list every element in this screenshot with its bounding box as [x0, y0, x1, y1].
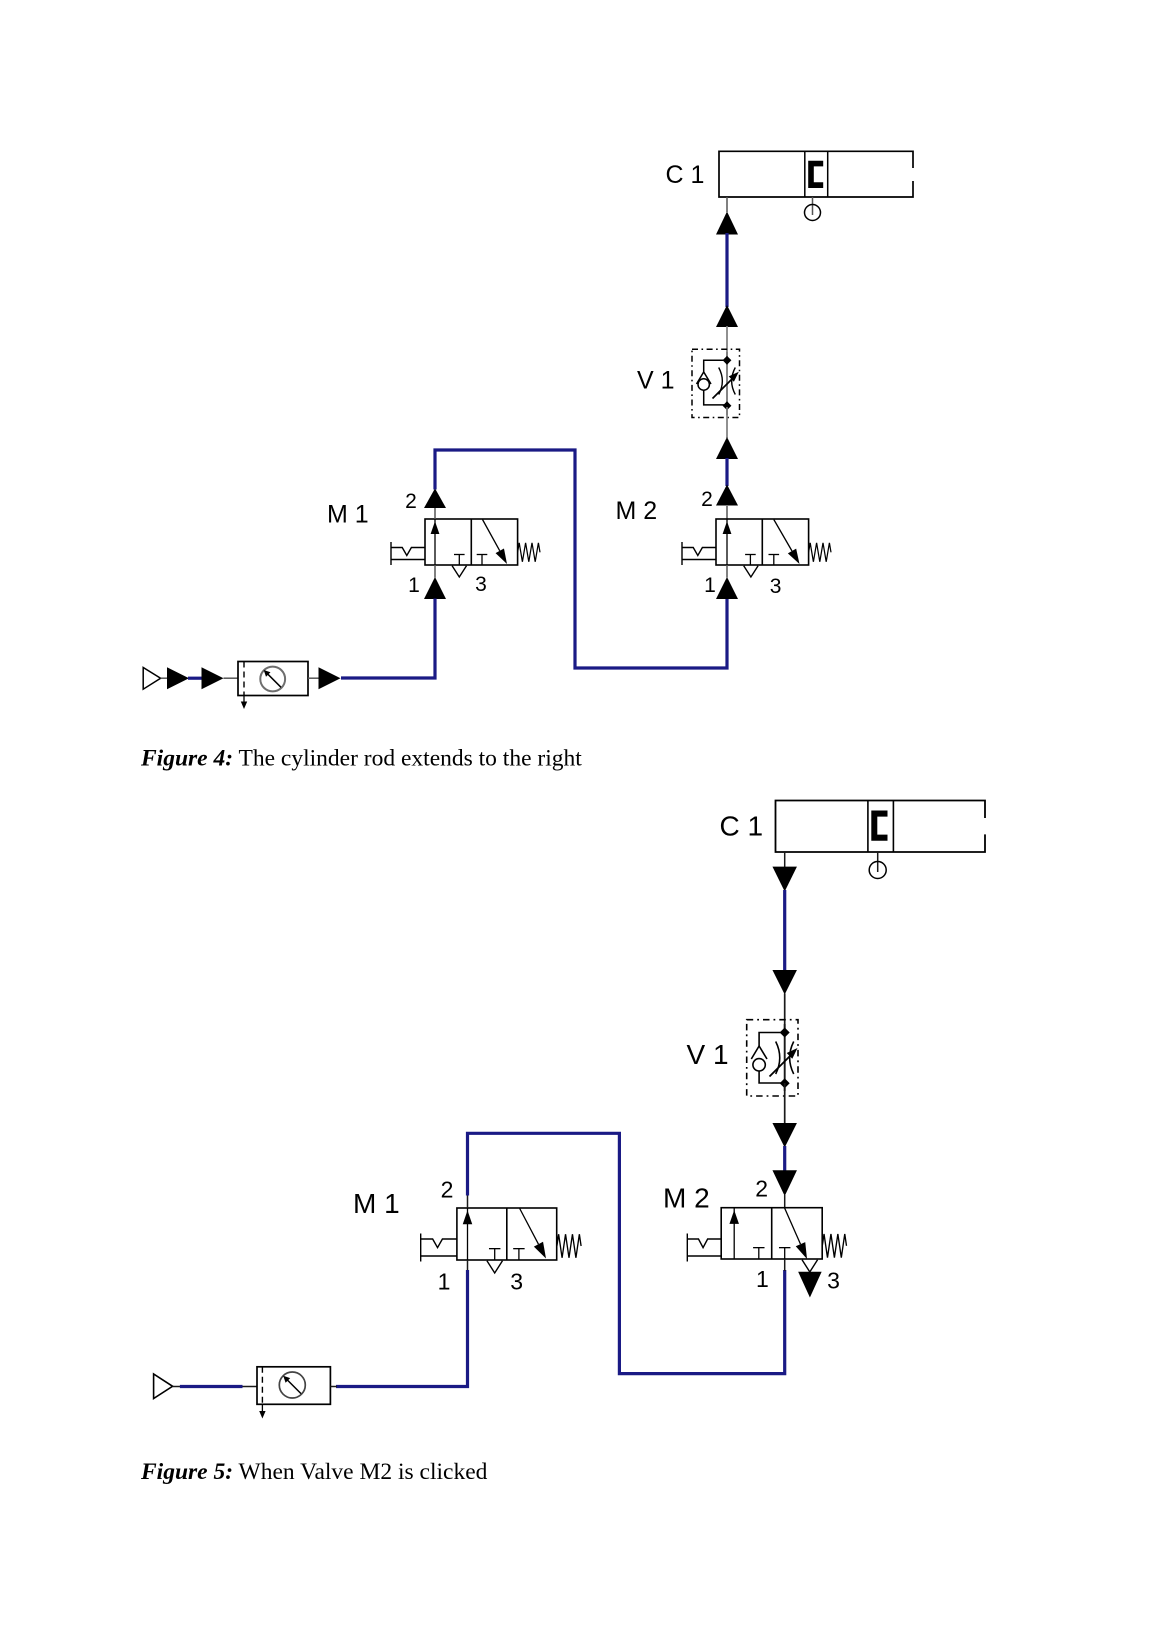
svg-text:3: 3 — [510, 1269, 523, 1295]
port label 2 of M1 (fig5) — [441, 1177, 454, 1203]
pressure regulator unit body (fig5) — [257, 1367, 330, 1405]
wire M1 port1 to supply (fig5) — [336, 1270, 468, 1387]
valve M1 (fig5) exhaust vent triangle — [487, 1261, 503, 1273]
wire stub V1 to arrow (fig5) — [784, 1083, 786, 1124]
svg-text:M 2: M 2 — [616, 497, 658, 525]
label V1 (fig4) — [637, 367, 675, 395]
valve M1 (fig4) body — [425, 519, 518, 565]
flow arrow up at M2 port1 (fig4) — [716, 577, 738, 599]
port label 2 of M1 (fig4) — [405, 490, 417, 513]
port label 1 of M1 (fig5) — [438, 1269, 451, 1295]
port label 3 of M1 (fig4) — [475, 573, 487, 596]
label M2 (fig4) — [616, 497, 658, 525]
svg-text:Figure 4: The cylinder rod ext: Figure 4: The cylinder rod extends to th… — [140, 746, 582, 772]
pressure regulator unit body (fig4) — [238, 662, 308, 696]
valve M2 (fig5) blocked port T (left box) — [753, 1248, 764, 1259]
port label 3 of M2 (fig5) — [827, 1268, 840, 1294]
caption Figure 4 — [140, 746, 582, 772]
svg-text:3: 3 — [827, 1268, 840, 1294]
V1 main flow line (fig4) — [726, 352, 728, 415]
label C1 (fig4) — [666, 161, 705, 189]
wire stub to M2 port 2 (fig4) — [726, 506, 728, 519]
svg-text:1: 1 — [704, 574, 716, 597]
wire stub regulator out (fig4) — [308, 677, 319, 679]
V1 node bottom junction (fig4) — [723, 401, 732, 410]
regulator dashed pilot line (fig5) — [261, 1367, 263, 1405]
wire stub to regulator (fig4) — [224, 677, 239, 679]
V1 throttle arcs (fig4) — [719, 368, 736, 395]
cylinder C1 (Figure 5) — [776, 801, 986, 853]
wire stub cylinder to arrow (fig4) — [726, 197, 728, 212]
svg-text:2: 2 — [755, 1176, 768, 1202]
wire V1 to M2 (fig5) — [783, 1146, 786, 1171]
valve M1 (fig5) internal flow line with arrow — [463, 1208, 473, 1260]
V1 check-valve bypass branch (fig5) — [751, 1033, 784, 1084]
wire stub M1 port1 (fig5) — [467, 1260, 469, 1271]
V1 node bottom junction (fig5) — [780, 1078, 790, 1088]
label M2 (fig5) — [663, 1183, 710, 1214]
flow arrow up 3 (fig4) — [716, 437, 738, 459]
cylinder C1 position sensor stem (fig5) — [877, 852, 879, 872]
svg-text:M 2: M 2 — [663, 1183, 710, 1214]
regulator vent arrow (fig5) — [259, 1404, 265, 1418]
svg-text:1: 1 — [408, 574, 420, 597]
valve M1 (fig4) blocked port T (left box) — [454, 555, 465, 566]
regulator vent arrow (fig4) — [241, 696, 247, 710]
flow arrow down 4 (fig5) — [772, 1170, 797, 1196]
wire stub source (fig4) — [161, 677, 168, 679]
flow-control valve V1 frame (fig5) — [747, 1020, 798, 1096]
V1 throttle arcs (fig5) — [776, 1042, 794, 1075]
svg-text:M 1: M 1 — [353, 1188, 400, 1219]
svg-text:V 1: V 1 — [687, 1039, 729, 1070]
regulator gauge (fig5) — [279, 1372, 305, 1398]
flow arrow up at M1 port1 (fig4) — [424, 577, 446, 599]
flow arrow right B (fig4) — [202, 667, 224, 689]
valve M2 (fig4) crossover arrow (right box) — [774, 520, 800, 565]
valve M2 (fig4) manual actuator — [682, 542, 716, 565]
svg-text:C 1: C 1 — [666, 161, 705, 189]
wire M1 port2 to M2 port1 link (fig4) — [435, 450, 727, 668]
valve M2 (fig5) internal flow line with arrow — [729, 1208, 739, 1259]
label C1 (fig5) — [720, 811, 764, 842]
svg-text:3: 3 — [475, 573, 487, 596]
wire stub M1 port1 (fig4) — [434, 565, 436, 578]
wire stub regulator out (fig5) — [330, 1386, 337, 1388]
valve M2 (fig4) blocked port T (left box) — [745, 555, 756, 566]
valve M2 (fig5) blocked port T (right box) — [779, 1248, 790, 1259]
wire cylinder-V1 (fig5) — [783, 890, 786, 971]
label V1 (fig5) — [687, 1039, 729, 1070]
valve M1 (fig5) blocked port T (left box) — [489, 1249, 500, 1260]
valve M2 (fig5) body — [721, 1208, 822, 1259]
valve M2 (fig5) return spring — [822, 1234, 846, 1258]
flow arrow up 2 (fig4) — [716, 305, 738, 327]
cylinder C1 (Figure 4) — [719, 151, 913, 197]
valve M1 (fig4) return spring — [518, 543, 540, 562]
valve M1 (fig4) blocked port T (right box) — [477, 555, 488, 566]
svg-text:2: 2 — [405, 490, 417, 513]
wire stub M2 port1 (fig5) — [784, 1259, 786, 1271]
regulator dashed pilot line (fig4) — [243, 662, 245, 696]
wire stub M1 port2 (fig5) — [467, 1194, 469, 1208]
V1 adjustability arrow (fig5) — [770, 1048, 798, 1077]
wire stub source (fig5) — [173, 1386, 181, 1388]
V1 node top junction (fig4) — [723, 356, 732, 365]
flow arrow right C (fig4) — [319, 667, 341, 689]
exhaust flow arrow down at M2 port3 (fig5) — [798, 1272, 822, 1298]
flow arrow up at M1 port2 (fig4) — [424, 488, 446, 508]
valve M2 (fig4) internal flow line with arrow — [723, 519, 732, 565]
valve M2 (fig4) blocked port T (right box) — [769, 555, 780, 566]
wire stub to M2 port2 (fig5) — [784, 1195, 786, 1208]
valve M1 (fig4) crossover arrow (right box) — [483, 520, 508, 565]
port label 2 of M2 (fig4) — [701, 488, 713, 511]
valve M1 (fig5) blocked port T (right box) — [513, 1249, 524, 1260]
caption Figure 5 — [140, 1459, 488, 1485]
port label 1 of M1 (fig4) — [408, 574, 420, 597]
flow arrow right A (fig4) — [167, 667, 189, 689]
valve M2 (fig4) return spring — [809, 543, 831, 562]
wire stub V1 to arrow (fig4) — [726, 407, 728, 438]
wire source to regulator (fig5) — [180, 1385, 243, 1388]
compressed air source triangle (fig4) — [143, 668, 160, 690]
wire stub into V1 (fig4) — [726, 326, 728, 359]
wire M1 port2 to M2 port1 link (fig5) — [468, 1133, 785, 1373]
label M1 (fig5) — [353, 1188, 400, 1219]
svg-text:C 1: C 1 — [720, 811, 764, 842]
valve M1 (fig5) manual actuator — [421, 1234, 457, 1262]
port label 3 of M2 (fig4) — [770, 575, 782, 598]
valve M2 (fig4) body — [716, 519, 809, 565]
flow arrow down 3 (fig5) — [772, 1123, 797, 1148]
svg-text:1: 1 — [756, 1266, 769, 1292]
wire stub regulator in (fig5) — [243, 1386, 258, 1388]
V1 node top junction (fig5) — [780, 1028, 790, 1038]
valve M1 (fig4) exhaust vent triangle — [452, 566, 466, 577]
valve M2 (fig5) crossover arrow (right box) — [785, 1208, 807, 1259]
wire V1 to M2 (fig4) — [725, 458, 728, 486]
cylinder C1 position sensor stem (fig4) — [812, 197, 814, 215]
svg-text:2: 2 — [701, 488, 713, 511]
valve M1 (fig5) body — [457, 1208, 557, 1260]
flow arrow up 4 (fig4) — [716, 485, 738, 506]
wire source segment (fig4) — [188, 677, 203, 680]
port label 2 of M2 (fig5) — [755, 1176, 768, 1202]
cylinder C1 position sensor circle (fig5) — [869, 862, 886, 879]
svg-text:M 1: M 1 — [327, 501, 369, 529]
label M1 (fig4) — [327, 501, 369, 529]
port label 1 of M2 (fig4) — [704, 574, 716, 597]
flow arrow down 1 (fig5) — [772, 867, 797, 892]
valve M2 (fig5) exhaust vent triangle — [802, 1260, 818, 1272]
valve M1 (fig5) return spring — [557, 1234, 581, 1258]
port label 1 of M2 (fig5) — [756, 1266, 769, 1292]
cylinder C1 position sensor circle (fig4) — [805, 205, 821, 221]
svg-text:2: 2 — [441, 1177, 454, 1203]
V1 check-valve bypass branch (fig4) — [697, 360, 728, 405]
wire supply to M1 (fig4) — [341, 599, 435, 679]
svg-text:1: 1 — [438, 1269, 451, 1295]
flow arrow down 2 (fig5) — [772, 970, 797, 995]
flow arrow up 1 (fig4) — [716, 212, 738, 235]
wire stub into V1 (fig5) — [784, 994, 786, 1033]
V1 adjustability arrow (fig4) — [713, 372, 739, 399]
port label 3 of M1 (fig5) — [510, 1269, 523, 1295]
svg-text:Figure 5: When Valve M2 is cli: Figure 5: When Valve M2 is clicked — [140, 1459, 488, 1485]
wire stub M1 port2 (fig4) — [434, 508, 436, 519]
svg-text:3: 3 — [770, 575, 782, 598]
V1 main flow line (fig5) — [784, 1024, 786, 1091]
wire stub M2 port1 (fig4) — [726, 565, 728, 578]
compressed air source triangle (fig5) — [154, 1374, 173, 1399]
svg-text:V 1: V 1 — [637, 367, 675, 395]
valve M1 (fig5) crossover arrow (right box) — [520, 1209, 546, 1259]
regulator gauge (fig4) — [260, 667, 285, 692]
valve M2 (fig4) exhaust vent triangle — [744, 566, 758, 577]
flow-control valve V1 frame (fig4) — [692, 349, 740, 417]
wire stub cylinder to arrow (fig5) — [784, 852, 786, 867]
valve M2 (fig5) manual actuator — [687, 1234, 721, 1262]
valve M1 (fig4) manual actuator — [391, 542, 425, 565]
wire cylinder-V1 upper (fig4) — [725, 233, 728, 307]
valve M1 (fig4) internal flow line with arrow — [431, 519, 440, 565]
